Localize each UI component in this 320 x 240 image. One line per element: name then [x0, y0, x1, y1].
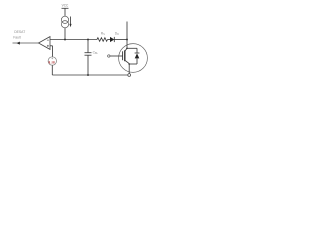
svg-text:VCC: VCC	[62, 4, 69, 8]
svg-text:DESAT: DESAT	[14, 30, 25, 34]
svg-text:Fault: Fault	[13, 35, 21, 39]
